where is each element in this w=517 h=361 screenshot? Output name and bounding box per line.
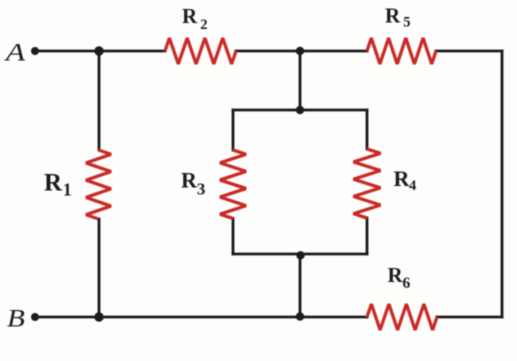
svg-text:R: R (182, 4, 198, 28)
svg-text:B: B (7, 304, 25, 332)
svg-text:R: R (44, 170, 63, 197)
svg-text:1: 1 (63, 180, 72, 200)
svg-text:3: 3 (197, 180, 206, 199)
svg-text:4: 4 (409, 178, 416, 194)
svg-text:R: R (181, 168, 198, 193)
svg-text:R: R (385, 4, 401, 28)
svg-text:6: 6 (403, 275, 411, 292)
svg-text:2: 2 (200, 17, 207, 33)
svg-text:A: A (4, 40, 26, 67)
svg-text:R: R (394, 166, 411, 191)
svg-text:5: 5 (403, 14, 410, 30)
svg-text:R: R (388, 263, 404, 287)
